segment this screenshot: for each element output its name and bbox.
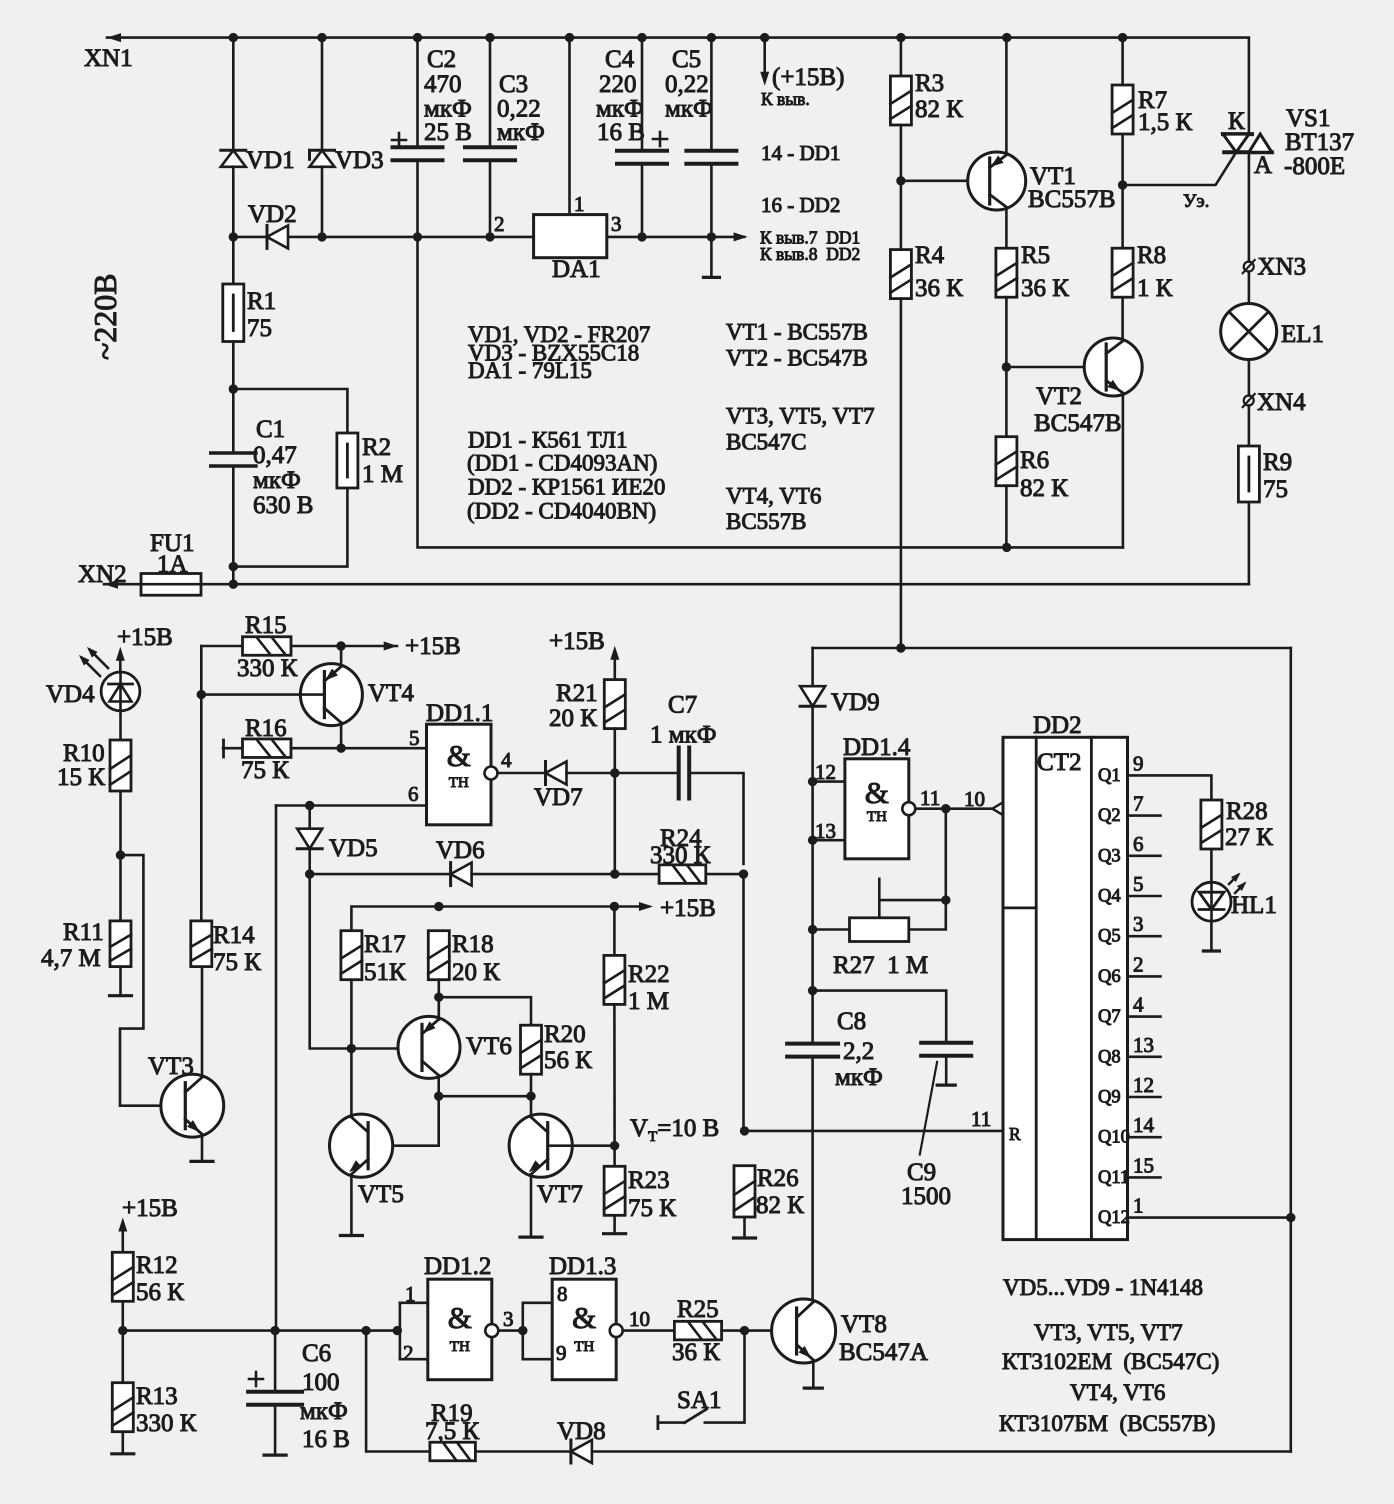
wire R19-VD8 [475,1450,571,1453]
wire R7 top [1121,38,1124,85]
svg-text:R20: R20 [544,1021,586,1048]
diode VD1 [221,150,246,167]
wire to CP [946,807,993,810]
capacitor C2 [392,133,443,160]
svg-text:1 М: 1 М [628,988,669,1015]
pin stub Q3 [1128,854,1161,857]
svg-text:VT2 - ВС547В: VT2 - ВС547В [726,346,868,371]
svg-text:DD1 - К561 ТЛ1: DD1 - К561 ТЛ1 [468,428,627,453]
resistor R24 [659,865,706,884]
junction [413,232,422,241]
wire XN2 rail [201,583,1249,586]
svg-text:XN1: XN1 [84,45,133,72]
wire triac gate [1123,152,1237,185]
svg-text:(DD1 - CD4093AN): (DD1 - CD4093AN) [467,451,657,476]
resistor R2 [337,433,358,488]
photodiode VD4 [79,647,140,711]
wire C4 bottom [641,164,644,237]
clock input triangle CP [992,799,1008,818]
svg-text:&: & [572,1300,596,1335]
wire pin8 stub [523,1302,552,1305]
resistor R4 [890,250,911,299]
wire VD3 bottom [321,167,324,237]
wire VT6 collector [437,1075,440,1096]
junction [305,801,314,810]
pin stub Q8 [1128,1056,1161,1059]
svg-text:VT3, VT5, VT7: VT3, VT5, VT7 [1034,1320,1183,1345]
wire C9 bottom [945,1056,948,1085]
wire VD1-R1 [232,167,235,284]
transistor VT7 [509,1114,572,1177]
diode VD6 [451,863,472,886]
transistor VT6 [398,1016,460,1078]
resistor R7 [1112,85,1133,134]
wire VD8 right bottom rail [592,1450,1291,1453]
switch SA1 [658,1409,707,1428]
junction [610,869,619,878]
svg-text:VD9: VD9 [831,689,880,716]
counter DD2 [1003,737,1128,1239]
svg-text:Q3: Q3 [1098,846,1121,866]
wire VD7-R21 [567,772,615,775]
svg-text:R4: R4 [915,242,945,269]
wire R27 wiper link [879,899,946,902]
svg-text:DD1.4: DD1.4 [843,734,911,761]
diode VD7 [546,762,567,785]
svg-text:BC557В: BC557В [1028,186,1116,213]
svg-text:ВС547С: ВС547С [726,430,807,455]
junction [305,869,314,878]
resistor R11 [110,921,131,967]
wire VD9 top rail [813,647,1291,650]
svg-text:VT7: VT7 [537,1181,583,1208]
junction [637,33,646,42]
wire VD4 top [119,660,122,672]
svg-text:&: & [865,775,889,810]
svg-text:DD2 - КР1561 ИЕ20: DD2 - КР1561 ИЕ20 [468,474,665,499]
svg-text:4: 4 [501,748,512,772]
svg-text:(DD2 - CD4040BN): (DD2 - CD4040BN) [467,499,656,524]
svg-text:7: 7 [1133,792,1144,816]
wire DA1 pin1 [568,38,571,215]
svg-text:+15В: +15В [405,633,461,660]
junction [808,836,817,845]
capacitor C3 [465,147,515,160]
wire HL1 bottom [1210,921,1213,951]
svg-text:R6: R6 [1020,447,1049,474]
svg-text:9: 9 [556,1341,567,1365]
svg-text:VD7: VD7 [534,784,583,811]
svg-text:9: 9 [1133,751,1144,775]
wire R5-R6 [1005,297,1008,437]
junction [637,232,646,241]
logic gate DD1.1 [427,724,492,825]
ground C6 [264,1453,286,1456]
capacitor C9 [921,1043,971,1056]
capacitor C7 [679,748,690,799]
junction [317,232,326,241]
resistor R15 [243,637,292,656]
resistor R8 [1112,248,1133,297]
svg-text:75: 75 [247,315,272,342]
junction [808,925,817,934]
wire R3 top [900,38,903,76]
resistor R22 [604,955,625,1004]
wire VT5 collector [350,1049,353,1118]
junction [610,768,619,777]
arrow +15V down [760,72,769,86]
wire SA1 right [705,1331,745,1423]
svg-text:ТН: ТН [450,1339,470,1355]
svg-text:R1: R1 [247,288,276,315]
junction [393,1326,402,1335]
resistor R18 [428,931,449,980]
diode VD9 [800,686,825,706]
wire pin2 stub [400,1358,428,1361]
junction [434,1092,443,1101]
svg-text:1 К: 1 К [1137,275,1173,302]
svg-text:VT8: VT8 [841,1311,887,1338]
svg-text:R28: R28 [1226,798,1268,825]
wire R24 down [742,874,745,1131]
wire VD6 rail [310,873,451,876]
resistor R23 [604,1166,625,1215]
wire C5 top [710,38,713,151]
svg-text:5: 5 [1133,872,1144,896]
wire C1 R2 top [233,389,347,433]
output bubble DD1.1 [485,767,498,780]
svg-text:К выв.8 DD2: К выв.8 DD2 [760,244,860,264]
diode VD3 [310,150,335,167]
pin stub Q10 [1128,1136,1161,1139]
svg-text:R13: R13 [136,1383,178,1410]
svg-text:R10: R10 [63,740,105,767]
svg-text:DA1: DA1 [552,256,601,283]
svg-text:14: 14 [1133,1113,1155,1137]
svg-text:DD1.1: DD1.1 [426,700,493,727]
svg-text:XN4: XN4 [1257,389,1306,416]
junction [229,562,238,571]
wire VT3 collector [201,967,204,1078]
svg-text:R21: R21 [556,680,598,707]
junction [229,232,238,241]
svg-text:EL1: EL1 [1281,321,1324,348]
svg-text:VT6: VT6 [466,1033,512,1060]
arrow +15В R21 [610,646,619,660]
output bubble DD1.4 [902,802,915,815]
diode VD5 [297,829,322,849]
connector XN4 [1243,394,1255,407]
svg-text:4: 4 [1133,993,1144,1017]
triac VS1 [1223,134,1272,152]
junction [317,33,326,42]
svg-text:75 К: 75 К [241,757,289,784]
resistor R19 [430,1442,476,1461]
resistor R16 [243,739,292,758]
svg-text:DA1 - 79L15: DA1 - 79L15 [468,358,592,383]
svg-text:82 К: 82 К [915,96,963,123]
wire VT8 emitter [812,1360,815,1388]
svg-text:ТН: ТН [574,1339,594,1355]
wire R12 top [122,1231,125,1252]
svg-text:10: 10 [964,787,985,811]
svg-text:3: 3 [611,212,622,236]
junction [434,902,443,911]
svg-text:75 К: 75 К [213,949,261,976]
svg-text:6: 6 [408,782,419,806]
junction [413,33,422,42]
transistor VT8 [772,1299,836,1363]
svg-text:25 В: 25 В [424,119,472,146]
svg-text:VD5...VD9 - 1N4148: VD5...VD9 - 1N4148 [1003,1275,1203,1300]
svg-text:82 К: 82 К [756,1192,804,1219]
wire pin6 left rail [275,806,278,1331]
junction [941,895,950,904]
svg-text:Q8: Q8 [1098,1047,1121,1067]
svg-text:C5: C5 [672,46,701,73]
wire VT6 base [351,1047,421,1050]
svg-text:DD2: DD2 [1033,712,1082,739]
svg-text:C4: C4 [605,46,635,73]
svg-text:630 В: 630 В [253,492,313,519]
connector XN3 [1243,260,1255,273]
wire pin4 out [498,772,546,775]
wire VT7 collector [530,1096,533,1116]
svg-text:Q11: Q11 [1098,1168,1129,1188]
svg-text:XN3: XN3 [1258,254,1307,281]
wire R3-R4 [900,125,903,250]
junction [739,869,748,878]
svg-text:VТ=10 В: VТ=10 В [630,1115,719,1145]
wire R14 rail [200,646,203,921]
wire VT2 emitter [1122,393,1125,547]
svg-text:100: 100 [302,1369,340,1396]
ground R26 [734,1236,756,1239]
junction [896,33,905,42]
wire R1-C1 [232,342,235,454]
svg-text:DD1.3: DD1.3 [549,1253,616,1280]
logic gate DD1.2 [428,1279,492,1380]
wire R16 left [223,747,243,750]
svg-text:R8: R8 [1137,242,1166,269]
wire C2 top [416,38,419,148]
wire C1 bottom [232,466,235,584]
svg-text:C3: C3 [499,71,528,98]
wire R15 left [201,645,242,648]
svg-text:C1: C1 [256,416,285,443]
capacitor C5 [686,151,736,164]
junction [565,33,574,42]
svg-text:R11: R11 [63,919,104,946]
svg-text:VD2: VD2 [248,201,297,228]
wire VD3 top [321,38,324,151]
arrow XN1 [107,33,121,42]
wire top rail XN1 [107,38,1249,135]
ground VT7 [520,1235,542,1238]
svg-text:220: 220 [599,71,637,98]
wire R26 bottom [743,1217,746,1238]
svg-text:3: 3 [503,1307,514,1331]
wire vert VD7-VD6 [613,773,616,874]
svg-text:Q9: Q9 [1098,1088,1121,1108]
svg-text:КТ3107БМ (ВС557В): КТ3107БМ (ВС557В) [999,1411,1215,1436]
lamp EL1 [1221,304,1277,360]
wire R reset [745,1130,1004,1133]
svg-text:36 К: 36 К [915,275,963,302]
svg-text:КТ3102ЕМ (ВС547С): КТ3102ЕМ (ВС547С) [1002,1349,1219,1374]
ground VT8 [804,1386,822,1389]
junction [518,1326,527,1335]
resistor R14 [191,921,212,967]
svg-text:VD1: VD1 [246,147,295,174]
transistor VT1 [968,152,1026,210]
svg-text:C2: C2 [427,46,456,73]
ground R11 [110,994,132,997]
wire R23 bottom [613,1215,616,1233]
svg-text:DD1.2: DD1.2 [424,1253,491,1280]
wire VT1 emitter [1005,38,1008,154]
wire VD5 top [308,806,311,829]
wire R25-VT8 [722,1329,797,1332]
svg-text:27 К: 27 К [1225,824,1273,851]
svg-text:R25: R25 [677,1296,719,1323]
svg-text:14 - DD1: 14 - DD1 [761,141,840,165]
svg-text:VT3: VT3 [148,1053,194,1080]
wire VS1 to XN3 [1248,152,1251,261]
svg-text:Q7: Q7 [1098,1007,1121,1027]
svg-text:5: 5 [409,726,420,750]
wire C1 R2 bottom [233,488,347,567]
svg-text:10: 10 [629,1307,650,1331]
wire R9 to XN2 rail [1248,502,1251,584]
svg-text:VD8: VD8 [557,1418,606,1445]
junction [740,1326,749,1335]
svg-text:C8: C8 [837,1008,866,1035]
wire VD2 rail left [233,236,533,239]
svg-text:+15В: +15В [122,1195,178,1222]
wire +15V tap [763,38,766,72]
arrow XN2 [104,580,118,589]
wire R22 bottom [613,1004,616,1145]
svg-text:(+15В): (+15В) [772,64,844,91]
svg-text:330 К: 330 К [650,842,711,869]
svg-text:20 К: 20 К [452,959,500,986]
wire C6 top [274,1331,277,1392]
wire R6 bottom [1005,486,1008,548]
wire VT6 emitter [437,997,440,1019]
diode VD2 [267,225,288,248]
wire R18-R20 [439,997,531,1025]
wire XN2 left [104,583,141,586]
svg-text:+15В: +15В [549,628,605,655]
wire VT2 base [1006,366,1106,369]
wire VT6-R20 bottom link [439,1095,531,1098]
wire pin9 stub [523,1358,552,1361]
svg-text:R5: R5 [1021,242,1050,269]
pin stub Q7 [1128,1015,1161,1018]
svg-text:1: 1 [1133,1194,1144,1218]
junction [229,384,238,393]
svg-text:56 К: 56 К [136,1279,184,1306]
transistor VT4 [300,664,362,726]
wire VT4 collector [340,723,343,749]
wire to C7 [615,772,679,775]
svg-text:6: 6 [1133,832,1144,856]
svg-text:C6: C6 [302,1340,331,1367]
svg-text:VT4: VT4 [368,680,414,707]
svg-text:HL1: HL1 [1231,892,1277,919]
wire XN3 to EL1 [1248,272,1251,304]
svg-text:VT3, VT5, VT7: VT3, VT5, VT7 [726,404,875,429]
svg-text:+15В: +15В [117,624,173,651]
svg-text:Уэ.: Уэ. [1183,191,1209,212]
svg-text:36 К: 36 К [1021,275,1069,302]
fuse FU1 [141,574,201,596]
arrow +15В osc [639,902,653,911]
svg-text:BC547A: BC547A [839,1339,928,1366]
wire C6 bottom [274,1405,277,1455]
junction [485,232,494,241]
pin stub Q4 [1128,895,1161,898]
svg-text:ВС557В: ВС557В [726,509,807,534]
svg-text:R3: R3 [915,70,944,97]
svg-text:VD4: VD4 [46,681,95,708]
svg-text:1500: 1500 [901,1183,951,1210]
wire VT1 collector [1005,208,1008,249]
resistor R21 [604,680,625,729]
wire R10 to VT3 base [120,855,185,1106]
svg-text:VT1 - ВС557В: VT1 - ВС557В [726,320,868,345]
svg-text:R14: R14 [213,922,255,949]
junction [1002,362,1011,371]
svg-text:VS1: VS1 [1286,105,1330,132]
svg-text:BC547В: BC547В [1034,410,1122,437]
ground VT3 [191,1160,213,1163]
wire right rail [1290,648,1293,1452]
logic gate DD1.3 [552,1279,616,1380]
svg-text:ВТ137: ВТ137 [1285,129,1354,156]
svg-text:VT5: VT5 [358,1181,404,1208]
resistor R28 [1201,800,1222,849]
output bubble DD1.2 [485,1324,498,1337]
svg-text:7,5 К: 7,5 К [425,1418,480,1445]
wire pin1 stub [400,1302,428,1305]
wire R10-R11 [119,791,122,921]
capacitor C4 [617,132,667,164]
wire VD1 top [232,38,235,151]
wire Q1 out [1128,775,1212,800]
output bubble DD1.3 [610,1324,623,1337]
wire R20 bottom [530,1074,533,1096]
junction [336,744,345,753]
junction [896,176,905,185]
resistor R1 [223,284,244,342]
wire R17 bottom [350,980,353,1049]
svg-text:R9: R9 [1263,449,1292,476]
diode VD8 [571,1440,592,1463]
svg-text:1 М: 1 М [362,461,403,488]
ground VT5 [340,1234,362,1237]
resistor R13 [112,1383,133,1432]
logic gate DD1.4 [845,759,909,859]
svg-text:16 - DD2: 16 - DD2 [761,193,840,217]
arrow +15В R15 [384,642,398,651]
junction [707,33,716,42]
svg-text:Q1: Q1 [1098,766,1121,786]
wire down to VT5 base [368,1096,439,1146]
pin stub Q11 [1128,1176,1161,1179]
svg-text:1: 1 [405,1282,416,1306]
